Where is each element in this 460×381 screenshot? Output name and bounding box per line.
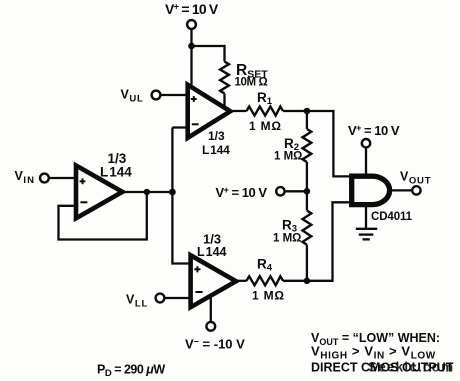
svg-text:1/3: 1/3	[208, 129, 225, 143]
label 1/3 (U3)	[203, 232, 221, 247]
wire gate output to VOUT	[391, 189, 412, 191]
resistor RSET 10M ohm	[220, 62, 229, 94]
value label 1 Mohm (R3)	[273, 233, 301, 245]
label CD4011	[371, 211, 413, 223]
note line 1: VOUT = "LOW" WHEN:	[311, 331, 440, 347]
op-amp U2 1/3 L144 (upper comparator)	[188, 85, 231, 138]
svg-text:1 MΩ: 1 MΩ	[273, 233, 301, 245]
node V+ rail junction	[188, 43, 195, 50]
terminal V- = -10 V	[206, 322, 215, 331]
wire mid node down to R3	[306, 191, 308, 210]
label L144 (U3)	[197, 245, 227, 259]
resistor R3 1 Mohm	[303, 211, 312, 245]
wire RSET bottom to op-amp U2 output edge	[223, 94, 225, 107]
svg-text:1 MΩ: 1 MΩ	[274, 151, 302, 163]
svg-text:VUL: VUL	[121, 87, 144, 104]
label VUL	[121, 87, 144, 104]
node U1 feedback tap	[144, 189, 150, 195]
note line 3: DIRECT CMOS OUTPUT	[311, 361, 454, 375]
wire gate ground pin	[365, 206, 367, 229]
label 1/3 (U1)	[108, 151, 127, 166]
svg-text:VOUT: VOUT	[400, 170, 431, 187]
terminal V+ = 10 V (top)	[187, 20, 196, 29]
svg-text:R1: R1	[257, 90, 273, 107]
label L144 (U1)	[100, 165, 132, 180]
node U1 output to bus junction	[169, 189, 176, 196]
wire U3 supply edge down to V- terminal	[210, 298, 212, 322]
svg-text:Seekic.com: Seekic.com	[368, 360, 454, 375]
op-amp U1 1/3 L144 (voltage follower)	[76, 166, 122, 219]
label 1/3 (U2)	[208, 129, 225, 143]
terminal VUL	[152, 91, 161, 100]
terminal V+ = 10 V (middle)	[276, 187, 284, 195]
label R4	[257, 257, 273, 274]
svg-text:1 MΩ: 1 MΩ	[249, 119, 282, 133]
resistor R4 1 Mohm	[247, 276, 284, 285]
svg-text:VLL: VLL	[126, 293, 148, 310]
svg-text:1 MΩ: 1 MΩ	[252, 289, 285, 303]
terminal VIN	[40, 174, 49, 183]
ground	[356, 229, 377, 240]
svg-text:L144: L144	[202, 143, 230, 157]
label R2	[284, 136, 299, 153]
svg-text:VIN: VIN	[15, 169, 36, 186]
node A junction R1/R2	[304, 108, 311, 115]
node mid V+ junction R2/R3	[304, 188, 311, 195]
value label 1 Mohm (R1)	[249, 119, 282, 133]
value label 1 Mohm (R4)	[252, 289, 285, 303]
wire VIN to U1 plus input	[50, 177, 77, 179]
label R3	[282, 218, 297, 235]
svg-text:R4: R4	[257, 257, 273, 274]
wire R3 to node B	[306, 245, 308, 281]
wire R4 to node B and up to gate bottom input	[283, 202, 350, 280]
wire VUL to U2 plus input	[161, 94, 188, 96]
label R1	[257, 90, 273, 107]
svg-text:L144: L144	[197, 245, 227, 259]
value label 1 Mohm (R2)	[274, 151, 302, 163]
wire VLL to U3 minus input	[165, 297, 191, 299]
wire V+ terminal to rail junction	[190, 29, 192, 46]
svg-text:V+ = 10 V: V+ = 10 V	[165, 1, 219, 17]
label VLL	[126, 293, 148, 310]
gate U4 CD4011 NAND	[352, 176, 390, 204]
label V- = -10 V	[185, 337, 245, 352]
label PD = 290 uW	[97, 363, 165, 380]
svg-text:PD = 290 μW: PD = 290 μW	[97, 363, 165, 380]
node B junction R3/R4	[304, 278, 311, 285]
value label 10M ohm	[235, 77, 268, 89]
wire U1 output to bus	[122, 191, 172, 193]
wire node A down to R2	[306, 111, 308, 129]
wire bus from U2 minus down to U3 plus	[172, 128, 190, 264]
label RSET	[236, 62, 268, 81]
note line 2: VHIGH > VIN > VLOW	[311, 344, 436, 362]
label V+ = 10 V (top)	[165, 1, 219, 17]
wire U1 feedback loop output to minus input	[59, 192, 147, 240]
svg-text:CD4011: CD4011	[371, 211, 413, 223]
wire V+ rail down to op-amp U2 supply	[190, 46, 192, 89]
wire U3 output to R4	[233, 280, 247, 282]
wire U2 output to R1	[228, 110, 247, 112]
label L144 (U2)	[202, 143, 230, 157]
label VIN	[15, 169, 36, 186]
wire gate V+ pin	[365, 148, 367, 176]
resistor R1 1 Mohm	[247, 107, 284, 116]
op-amp U3 1/3 L144 (lower comparator)	[191, 255, 236, 307]
resistor R2 1 Mohm	[303, 129, 312, 162]
label VOUT	[400, 170, 431, 187]
svg-text:V+ = 10 V: V+ = 10 V	[216, 185, 268, 200]
svg-text:V− = -10 V: V− = -10 V	[185, 337, 245, 352]
terminal VOUT	[412, 186, 420, 194]
wire mid V+ terminal to node	[285, 190, 307, 192]
wire R2 to mid V+ node	[306, 162, 308, 191]
svg-text:L144: L144	[100, 165, 132, 180]
terminal VLL	[156, 294, 165, 303]
label V+ = 10 V (middle)	[216, 185, 268, 200]
svg-text:10M Ω: 10M Ω	[235, 77, 268, 89]
wire V+ rail to RSET top	[192, 46, 225, 62]
terminal V+ = 10 V (gate)	[362, 139, 370, 147]
wire R1 to node A and over to gate top input	[283, 111, 350, 176]
svg-text:V+ = 10 V: V+ = 10 V	[348, 123, 400, 138]
watermark Seekic.com overlay	[368, 360, 454, 375]
wire U2 minus input to bus	[172, 126, 188, 128]
label V+ = 10 V (gate)	[348, 123, 400, 138]
svg-text:VOUT = “LOW” WHEN:: VOUT = “LOW” WHEN:	[311, 331, 440, 347]
